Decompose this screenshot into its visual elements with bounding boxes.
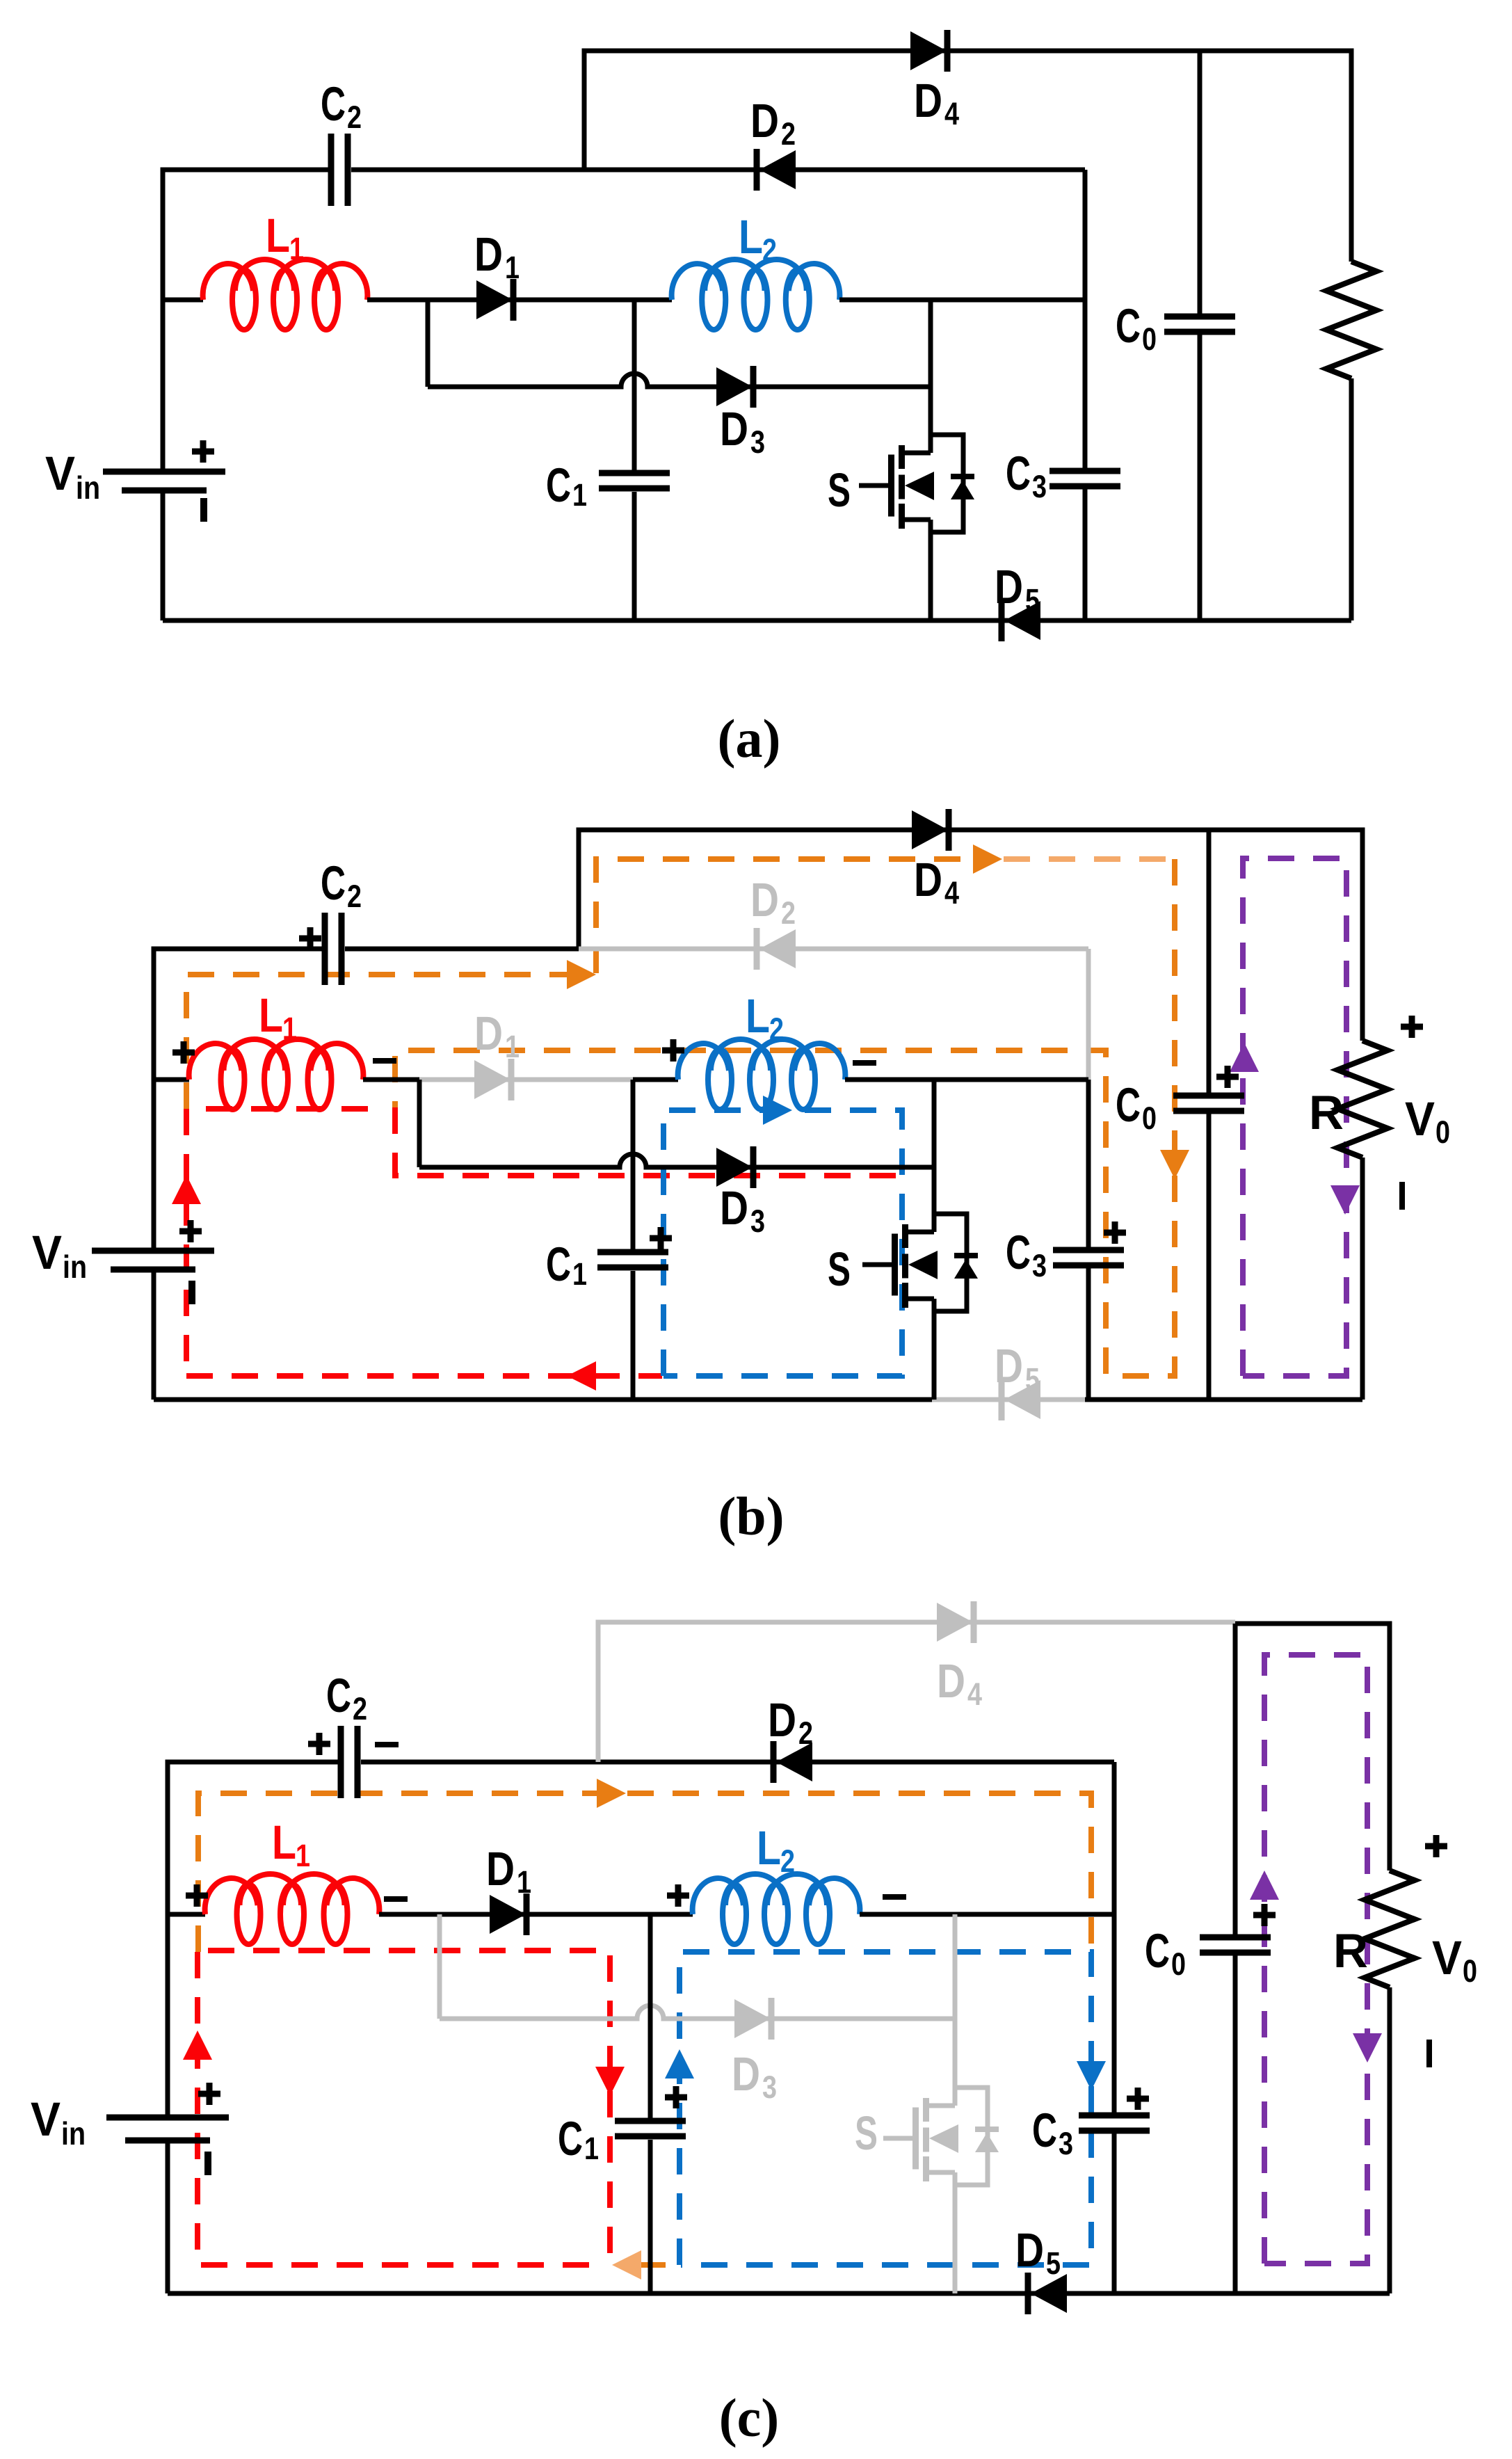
svg-text:C: C [1116, 1078, 1141, 1132]
svg-text:C: C [1032, 2104, 1057, 2157]
svg-text:1: 1 [572, 1256, 587, 1292]
svg-text:C: C [1116, 299, 1141, 353]
svg-text:in: in [61, 2115, 86, 2152]
svg-text:3: 3 [762, 2069, 777, 2105]
svg-text:3: 3 [750, 424, 765, 460]
svg-text:1: 1 [572, 477, 587, 513]
svg-text:2: 2 [780, 1843, 795, 1879]
svg-text:0: 0 [1463, 1953, 1477, 1989]
svg-text:C: C [1006, 447, 1031, 500]
svg-text:C: C [1006, 1226, 1031, 1279]
svg-text:1: 1 [505, 1029, 520, 1064]
svg-text:3: 3 [1059, 2126, 1073, 2161]
svg-text:L: L [259, 988, 283, 1042]
svg-text:S: S [855, 2106, 878, 2160]
svg-text:S: S [828, 463, 851, 517]
svg-text:L: L [266, 209, 290, 262]
svg-text:5: 5 [1025, 1361, 1040, 1397]
svg-text:1: 1 [289, 231, 304, 266]
svg-text:in: in [76, 470, 100, 506]
svg-text:C: C [326, 1669, 351, 1722]
svg-text:D: D [474, 1007, 503, 1060]
svg-text:L: L [272, 1816, 296, 1869]
svg-text:D: D [486, 1842, 515, 1896]
svg-text:0: 0 [1142, 321, 1157, 357]
svg-text:D: D [914, 74, 942, 127]
svg-text:2: 2 [347, 99, 362, 135]
svg-text:3: 3 [750, 1203, 765, 1239]
svg-text:D: D [732, 2047, 760, 2101]
svg-text:D: D [937, 1654, 965, 1708]
svg-text:2: 2 [769, 1011, 784, 1047]
svg-text:V: V [32, 1226, 62, 1279]
svg-text:S: S [828, 1242, 851, 1296]
svg-text:2: 2 [353, 1691, 367, 1727]
svg-text:(b): (b) [718, 1486, 784, 1546]
svg-text:2: 2 [347, 879, 362, 914]
svg-text:L: L [757, 1821, 781, 1875]
svg-text:3: 3 [1032, 1248, 1047, 1283]
svg-text:0: 0 [1142, 1100, 1157, 1136]
svg-text:V: V [1432, 1931, 1462, 1985]
svg-text:5: 5 [1046, 2245, 1061, 2281]
svg-text:L: L [746, 989, 770, 1043]
svg-text:2: 2 [798, 1715, 813, 1751]
svg-text:0: 0 [1171, 1946, 1186, 1982]
svg-text:D: D [750, 873, 779, 927]
svg-text:C: C [546, 1237, 571, 1291]
svg-text:2: 2 [781, 116, 796, 152]
svg-text:D: D [768, 1693, 796, 1747]
svg-text:4: 4 [944, 96, 959, 131]
svg-text:2: 2 [781, 895, 796, 931]
svg-text:3: 3 [1032, 469, 1047, 504]
svg-text:V: V [45, 447, 75, 500]
svg-text:1: 1 [296, 1838, 310, 1873]
svg-text:(a): (a) [718, 708, 781, 769]
svg-text:C: C [558, 2112, 583, 2165]
svg-text:(c): (c) [719, 2387, 780, 2448]
svg-text:R: R [1309, 1086, 1344, 1139]
svg-text:1: 1 [505, 250, 520, 285]
svg-text:1: 1 [584, 2131, 599, 2166]
svg-text:D: D [750, 94, 779, 147]
svg-text:1: 1 [517, 1864, 531, 1900]
svg-text:4: 4 [967, 1676, 982, 1712]
svg-text:D: D [474, 227, 503, 281]
svg-text:C: C [321, 856, 346, 910]
svg-text:1: 1 [282, 1011, 297, 1046]
svg-text:in: in [63, 1249, 87, 1285]
svg-text:5: 5 [1025, 582, 1040, 618]
svg-text:D: D [1015, 2223, 1044, 2277]
svg-text:D: D [995, 1339, 1023, 1393]
svg-text:V: V [1405, 1092, 1435, 1146]
svg-text:C: C [321, 77, 346, 131]
svg-text:R: R [1333, 1924, 1368, 1978]
svg-text:2: 2 [762, 232, 777, 268]
svg-text:V: V [31, 2092, 61, 2146]
svg-text:0: 0 [1435, 1114, 1450, 1150]
svg-text:D: D [995, 560, 1023, 614]
svg-text:L: L [739, 210, 763, 264]
svg-text:D: D [720, 402, 748, 456]
svg-text:D: D [720, 1181, 748, 1235]
svg-text:D: D [914, 853, 942, 906]
svg-text:C: C [1145, 1924, 1170, 1978]
svg-text:C: C [546, 458, 571, 512]
svg-text:4: 4 [944, 875, 959, 911]
